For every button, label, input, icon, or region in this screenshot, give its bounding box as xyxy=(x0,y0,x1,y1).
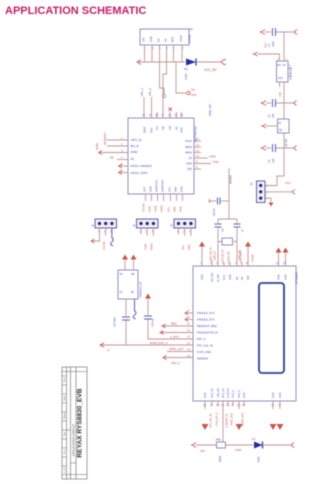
svg-text:VCC18_IO: VCC18_IO xyxy=(221,249,225,262)
U1 left pin row5 xyxy=(119,162,129,168)
svg-text:14: 14 xyxy=(180,113,184,117)
net label stub R2 xyxy=(148,88,152,118)
svg-text:SDA: SDA xyxy=(174,186,178,192)
svg-text:VDD_SPI: VDD_SPI xyxy=(208,104,212,116)
svg-text:VIO: VIO xyxy=(247,276,250,280)
svg-text:UART1RX: UART1RX xyxy=(161,180,165,192)
svg-text:U2: U2 xyxy=(189,27,193,31)
svg-text:SS14: SS14 xyxy=(184,73,188,80)
power arrow U5 pin25 xyxy=(283,248,289,253)
svg-text:GND_RF: GND_RF xyxy=(227,251,231,262)
svg-text:V_RTC: V_RTC xyxy=(170,335,179,339)
svg-text:SCL: SCL xyxy=(168,186,172,192)
svg-text:GND: GND xyxy=(181,127,184,133)
wire VCC18 rail xyxy=(266,102,271,104)
svg-text:VOUT: VOUT xyxy=(179,34,183,42)
svg-text:SCLK: SCLK xyxy=(185,139,192,143)
U4 bottom wire with cap C9 xyxy=(113,299,131,345)
svg-text:XI_32K: XI_32K xyxy=(217,273,220,282)
capacitor C6 xyxy=(215,224,225,266)
svg-text:GND: GND xyxy=(148,206,152,212)
J2 pin3 nc squiggle xyxy=(111,228,114,246)
U1 left pin stubs row1 xyxy=(103,132,128,140)
net arrow VCC18 xyxy=(261,101,267,106)
U1 left pin row3 xyxy=(95,143,128,155)
net arrow WAKEUP xyxy=(100,343,104,347)
svg-text:U6 SW: U6 SW xyxy=(284,138,288,147)
bottom rail wire xyxy=(196,444,216,446)
wire 32K osc vertical xyxy=(228,168,230,201)
power arrow U5 pin24 xyxy=(276,248,282,253)
svg-text:IN: IN xyxy=(279,122,282,125)
wire EN testpoint xyxy=(160,62,165,94)
off-page terminal V18 xyxy=(294,101,297,106)
wire bus to U6 xyxy=(283,103,285,119)
svg-text:PSHOLD/TXD_IN: PSHOLD/TXD_IN xyxy=(197,331,218,335)
svg-text:OUT: OUT xyxy=(278,77,284,80)
svg-text:GND: GND xyxy=(278,274,281,280)
off-page terminal rail bottom xyxy=(291,443,294,448)
svg-text:VA: VA xyxy=(120,273,123,276)
U1 bottom pin stubs xyxy=(146,194,183,201)
svg-text:GND: GND xyxy=(229,274,232,280)
svg-text:EN: EN xyxy=(156,126,159,130)
U5 left pin stubs 1-2 xyxy=(185,309,193,322)
U5 bottom pin stubs xyxy=(205,401,280,445)
svg-text:VCC: VCC xyxy=(285,181,291,185)
svg-text:ON: ON xyxy=(279,129,283,132)
wire pin4 to U1 xyxy=(163,62,167,101)
capacitor C3 xyxy=(267,144,294,163)
svg-text:32K_XI: 32K_XI xyxy=(213,251,217,260)
U1 left pin row6 xyxy=(119,169,129,175)
connector J2 xyxy=(91,219,117,234)
svg-text:VCC33: VCC33 xyxy=(142,203,146,212)
svg-text:RXD1: RXD1 xyxy=(160,205,164,212)
U1 top pin names xyxy=(144,125,184,133)
gnd arrow J5-3 xyxy=(269,203,274,207)
U5 antenna area rounded rect xyxy=(259,283,284,373)
svg-text:SDA: SDA xyxy=(173,206,177,212)
svg-text:VCC: VCC xyxy=(223,275,226,280)
off-page terminal J5-2 xyxy=(292,189,295,194)
IC U1 box xyxy=(128,118,194,194)
svg-text:SDA: SDA xyxy=(187,244,191,250)
svg-text:C2: C2 xyxy=(267,114,271,118)
svg-text:VIN: VIN xyxy=(142,38,146,42)
svg-text:GND: GND xyxy=(179,206,183,212)
svg-text:SCL: SCL xyxy=(167,206,171,212)
svg-text:VCC: VCC xyxy=(143,186,147,192)
connector J3 xyxy=(132,219,158,234)
J5 pin2 wire xyxy=(265,191,292,193)
svg-text:MAIN_RST_X: MAIN_RST_X xyxy=(150,341,168,345)
U1 right pin names xyxy=(185,139,192,171)
svg-text:WAKEUP: WAKEUP xyxy=(197,357,208,361)
U1 top pin numbers xyxy=(142,113,184,117)
svg-text:RXD: RXD xyxy=(187,162,193,166)
svg-text:VCC_IO: VCC_IO xyxy=(222,389,225,398)
svg-text:1uF: 1uF xyxy=(271,113,275,118)
svg-text:GND: GND xyxy=(201,274,204,280)
svg-text:D2: D2 xyxy=(184,67,188,71)
svg-text:VRTC_IN: VRTC_IN xyxy=(131,138,142,142)
U1 left pin names xyxy=(131,138,153,175)
wire bus down to J5 xyxy=(265,148,284,186)
U2 pin stubs xyxy=(145,45,183,62)
U1 left pin row2 xyxy=(103,138,128,146)
U4 nc squiggle xyxy=(133,299,136,319)
svg-text:RXD: RXD xyxy=(210,155,217,159)
U3 right stub xyxy=(288,67,292,69)
svg-text:1 of 1: 1 of 1 xyxy=(64,466,66,472)
svg-text:VCC_RF: VCC_RF xyxy=(211,388,214,398)
svg-text:10uF: 10uF xyxy=(271,41,275,47)
net input arrow VIN xyxy=(137,60,141,65)
off-page terminal VCC xyxy=(294,30,297,35)
diode D1 xyxy=(252,437,263,462)
net arrow rail2 xyxy=(261,146,267,151)
svg-text:VDD: VDD xyxy=(151,128,154,133)
J5 pin3 wire xyxy=(265,198,271,202)
svg-text:RTC_CLK_IN: RTC_CLK_IN xyxy=(197,344,213,348)
svg-text:SCL: SCL xyxy=(181,244,185,250)
svg-text:VANT: VANT xyxy=(235,448,242,452)
power arrow VCC (level shifter B) xyxy=(131,255,137,271)
U3 bottom pin xyxy=(278,82,284,103)
svg-text:TP: TP xyxy=(191,88,195,92)
U1 right pin numbers xyxy=(196,137,200,169)
svg-text:GND: GND xyxy=(149,36,153,42)
long wire WAKEUP xyxy=(101,344,193,346)
svg-text:V18: V18 xyxy=(278,92,282,97)
svg-text:EN: EN xyxy=(278,64,282,67)
svg-text:ESD: ESD xyxy=(257,457,261,462)
svg-text:AVDD: AVDD xyxy=(95,143,99,150)
svg-text:20: 20 xyxy=(142,113,146,117)
svg-text:VCC_5V: VCC_5V xyxy=(204,68,217,72)
svg-text:32K_XO_IN: 32K_XO_IN xyxy=(209,247,213,261)
wire osc tee xyxy=(218,201,237,223)
svg-text:16: 16 xyxy=(168,113,172,117)
ground arrow pin18 xyxy=(270,424,277,430)
svg-text:GND: GND xyxy=(204,392,207,398)
wire row8 xyxy=(164,357,193,359)
svg-text:NC: NC xyxy=(164,38,168,42)
svg-text:RXD1: RXD1 xyxy=(150,243,154,250)
svg-text:TXD0_3V3: TXD0_3V3 xyxy=(230,413,234,426)
U6 bottom pin xyxy=(283,133,285,148)
U5 left pin 4 xyxy=(160,328,193,334)
svg-text:READOUT_REQ: READOUT_REQ xyxy=(197,324,217,328)
crystal X1 xyxy=(218,238,237,245)
svg-text:VCC33: VCC33 xyxy=(102,241,106,250)
ground arrow pin26 xyxy=(236,424,243,430)
connector J5 xyxy=(250,181,268,203)
svg-text:NC: NC xyxy=(110,156,114,160)
capacitor C7 xyxy=(234,224,245,266)
power arrow feed U6 xyxy=(261,124,278,128)
wire V18 rail2 xyxy=(266,147,271,149)
svg-text:C8 NC: C8 NC xyxy=(212,208,216,216)
svg-text:VCC_RF_IN: VCC_RF_IN xyxy=(209,413,213,428)
wire VIN rail xyxy=(138,61,185,63)
svg-text:V_BCKP: V_BCKP xyxy=(227,388,230,398)
svg-text:XO_32K: XO_32K xyxy=(211,272,214,282)
rail wire right xyxy=(264,444,292,446)
svg-text:C7: C7 xyxy=(241,228,245,232)
wire U1 pin3 top xyxy=(162,101,164,118)
svg-text:IN: IN xyxy=(283,64,286,67)
off-page terminal rail2 xyxy=(294,146,297,151)
svg-text:D1: D1 xyxy=(252,437,256,441)
ground arrow pin32 xyxy=(202,424,209,430)
U5 left pin names xyxy=(197,311,218,361)
svg-text:PIO_1: PIO_1 xyxy=(140,88,144,96)
J4 pin wires xyxy=(179,228,191,236)
svg-text:10: 10 xyxy=(196,154,200,158)
svg-text:TXD1: TXD1 xyxy=(154,205,158,212)
power arrow VRTC xyxy=(145,294,151,316)
svg-text:C6: C6 xyxy=(221,228,225,232)
wire BYP down xyxy=(176,62,186,93)
svg-text:RXD0_3V3: RXD0_3V3 xyxy=(241,412,245,426)
svg-text:PSHOLD_SYS: PSHOLD_SYS xyxy=(197,318,215,322)
svg-text:GND: GND xyxy=(279,392,282,398)
svg-text:VCC: VCC xyxy=(264,42,268,48)
power flag EN U3 xyxy=(253,52,280,61)
net label stub R1 xyxy=(140,88,144,118)
svg-text:17: 17 xyxy=(161,113,165,117)
connector J4 xyxy=(170,219,196,234)
svg-text:RXD_0: RXD_0 xyxy=(238,389,241,398)
U5 top pin names xyxy=(201,272,288,282)
svg-text:1uF: 1uF xyxy=(271,158,275,163)
capacitor C10 xyxy=(144,316,193,339)
U5 bottom pin names xyxy=(204,388,282,398)
svg-text:600R: 600R xyxy=(218,456,222,462)
svg-text:V_BCKP_IN: V_BCKP_IN xyxy=(225,414,229,428)
svg-text:IO1: IO1 xyxy=(162,125,165,130)
U5 left pin 3 xyxy=(162,322,193,328)
svg-text:VBAT: VBAT xyxy=(144,126,147,133)
wire VCC rail top right xyxy=(265,31,271,33)
svg-text:15: 15 xyxy=(174,113,178,117)
svg-text:XO32K: XO32K xyxy=(229,175,233,184)
no-connect X mark xyxy=(169,108,173,112)
net arrow rail bottom xyxy=(191,443,196,448)
svg-text:SYST_AND: SYST_AND xyxy=(197,350,211,354)
testpoint TP1 xyxy=(162,94,165,97)
svg-text:GPIO1 / WAKEUP: GPIO1 / WAKEUP xyxy=(131,164,153,168)
ferrite bead FB1 xyxy=(216,438,226,463)
power arrow U5 pin8 xyxy=(245,242,251,247)
net arrow VCC in xyxy=(260,30,266,35)
svg-text:AVDD: AVDD xyxy=(131,150,138,154)
svg-text:C10 1u: C10 1u xyxy=(151,318,155,327)
svg-text:C3: C3 xyxy=(267,159,271,163)
svg-text:GPS: GPS xyxy=(191,93,197,97)
svg-text:13: 13 xyxy=(196,137,200,141)
capacitor C8 xyxy=(210,198,230,217)
svg-text:Sheet: Sheet xyxy=(63,413,66,419)
svg-text:LNA_EN: LNA_EN xyxy=(217,388,220,398)
svg-text:Date: Date xyxy=(63,395,66,400)
U1 bottom pin names xyxy=(143,180,184,192)
svg-text:EN: EN xyxy=(157,38,161,42)
svg-text:LDO33: LDO33 xyxy=(188,34,192,43)
svg-text:GEO_X: GEO_X xyxy=(171,361,180,365)
svg-text:18: 18 xyxy=(155,113,159,117)
regulator U2 box xyxy=(140,29,189,45)
svg-text:1PPS_OUT: 1PPS_OUT xyxy=(169,347,184,351)
U1 right pin stubs xyxy=(194,141,211,169)
level shifter U4 box xyxy=(118,270,138,299)
rail wire mid xyxy=(226,444,254,446)
net arrow J2-1 xyxy=(91,239,95,243)
svg-text:REYAX RYS8830_EVB: REYAX RYS8830_EVB xyxy=(77,388,84,457)
svg-text:ANT: ANT xyxy=(200,449,206,453)
svg-text:GND: GND xyxy=(285,274,288,280)
svg-text:GPIO2 / 1PPS: GPIO2 / 1PPS xyxy=(131,171,148,175)
svg-text:VIO18: VIO18 xyxy=(251,254,255,262)
svg-text:11: 11 xyxy=(196,149,199,153)
svg-text:GND: GND xyxy=(243,392,246,398)
svg-text:LNA_EN_X: LNA_EN_X xyxy=(215,412,219,426)
svg-text:PSHOLD_SYS: PSHOLD_SYS xyxy=(197,311,215,315)
J3 pin wires xyxy=(141,228,153,236)
svg-text:BYP: BYP xyxy=(171,37,175,42)
svg-text:UART1TX: UART1TX xyxy=(155,180,159,192)
power arrow U5 pin1 xyxy=(199,242,205,247)
U1 left pin row4 xyxy=(110,156,128,160)
wire 1PPS xyxy=(167,351,193,353)
power arrow VCC (level shifter A) xyxy=(122,255,128,271)
svg-text:APPLICATION CIRCUIT: APPLICATION CIRCUIT xyxy=(72,424,76,457)
svg-text:CS: CS xyxy=(188,156,192,160)
svg-text:MOSI: MOSI xyxy=(185,151,192,155)
svg-text:GND: GND xyxy=(272,392,275,398)
svg-text:RST_X: RST_X xyxy=(197,337,206,341)
title block table xyxy=(62,367,87,479)
svg-text:TXD: TXD xyxy=(213,160,220,164)
svg-text:RYS8830: RYS8830 xyxy=(295,272,299,284)
U5 top pin numbers xyxy=(200,261,286,265)
svg-text:MIC_B: MIC_B xyxy=(131,144,139,148)
svg-text:12: 12 xyxy=(196,143,200,147)
svg-text:IO2: IO2 xyxy=(169,125,172,130)
U2 pin numbers xyxy=(144,46,184,50)
svg-text:NC_TEST: NC_TEST xyxy=(239,250,243,262)
net arrow row8 xyxy=(163,355,167,359)
testpoint TP2 xyxy=(187,91,190,94)
U1 bottom net labels xyxy=(142,203,183,212)
U1 top pin stubs xyxy=(157,112,182,118)
svg-text:C1: C1 xyxy=(267,43,271,47)
svg-text:19: 19 xyxy=(149,113,153,117)
wire bus from rail to U3 xyxy=(283,32,285,61)
svg-text:FB1: FB1 xyxy=(216,438,221,442)
U5 bottom pin numbers xyxy=(203,403,281,407)
capacitor C1 xyxy=(267,28,294,47)
svg-text:VB: VB xyxy=(131,273,135,276)
svg-text:TXD: TXD xyxy=(187,167,192,171)
svg-text:TXD1: TXD1 xyxy=(144,243,148,250)
svg-text:VRTC: VRTC xyxy=(103,132,107,139)
svg-text:TXD_0: TXD_0 xyxy=(232,390,235,398)
U5 top pin stubs xyxy=(202,246,286,266)
svg-text:REQ: REQ xyxy=(171,322,177,326)
svg-text:NC: NC xyxy=(176,126,179,130)
title block small cells text xyxy=(63,377,66,473)
J2 pin2 wire xyxy=(105,228,107,236)
off-page terminal right xyxy=(221,60,226,65)
ground arrow pin17 xyxy=(277,424,284,430)
svg-text:NC: NC xyxy=(236,276,239,280)
J2 pin1 wire xyxy=(92,228,100,241)
diode D2 xyxy=(186,59,196,66)
capacitor C2 xyxy=(267,99,294,118)
svg-text:PIO_2: PIO_2 xyxy=(148,88,152,96)
U5 left pins 5-8 numbers xyxy=(187,335,190,359)
svg-text:APPLICATION SCHEMATIC: APPLICATION SCHEMATIC xyxy=(5,5,146,17)
U3 right stub 2 xyxy=(288,75,292,77)
svg-text:NC: NC xyxy=(241,276,244,280)
svg-text:MICB: MICB xyxy=(103,138,107,145)
IC U5 module box xyxy=(193,266,296,401)
svg-text:C9 100n: C9 100n xyxy=(113,317,117,327)
load switch U6 box xyxy=(278,119,290,133)
svg-text:MISO: MISO xyxy=(185,145,192,149)
svg-text:TXB0101 U4: TXB0101 U4 xyxy=(139,282,143,298)
regulator U3 box xyxy=(277,61,289,82)
wire diode to terminal xyxy=(197,61,221,63)
svg-text:GND: GND xyxy=(149,186,153,192)
svg-text:NC: NC xyxy=(131,157,135,161)
svg-text:GND: GND xyxy=(180,186,184,192)
